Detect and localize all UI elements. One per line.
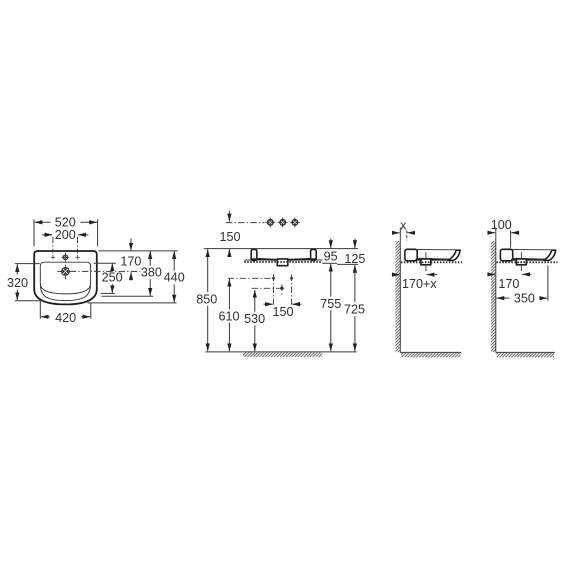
dimension 100 arrows xyxy=(488,232,496,234)
elevation fixing hole dash-dot verticals xyxy=(273,274,275,304)
dimension x arrows xyxy=(392,232,400,234)
side2 surface dotted band xyxy=(496,261,557,263)
side2 floor hatching xyxy=(497,353,555,357)
svg-text:350: 350 xyxy=(514,291,535,305)
svg-text:150: 150 xyxy=(272,305,293,319)
elevation tap holes dash-dot line xyxy=(226,222,264,224)
svg-text:x: x xyxy=(400,219,407,233)
dimension 250 xyxy=(111,263,113,270)
side2 front rim xyxy=(544,250,556,260)
svg-text:95: 95 xyxy=(324,250,338,264)
svg-text:170+x: 170+x xyxy=(402,277,437,291)
plan drain symbol xyxy=(59,265,73,279)
dimension 150 vertical bottom arrow xyxy=(228,249,230,256)
dimension 100 extension line xyxy=(510,230,512,247)
elevation surface dotted band xyxy=(244,261,322,263)
dimension 520 extension lines xyxy=(33,219,35,246)
plan centre tap hole symbol xyxy=(61,253,69,261)
plan right tap hole cross xyxy=(75,255,80,260)
side1 surface dotted band xyxy=(401,261,462,263)
elevation fixing hole right xyxy=(290,277,293,280)
dimension 95 bottom reference line xyxy=(322,262,337,264)
elevation outlet dash-dot vertical xyxy=(281,285,283,295)
side1 drain trap xyxy=(421,259,431,265)
dimension 125 bottom reference line xyxy=(337,263,358,265)
elevation right rim section xyxy=(311,249,317,260)
plan right extension line 250 top xyxy=(94,262,116,264)
plan right extension line 440 bottom xyxy=(87,302,176,304)
svg-text:150: 150 xyxy=(219,230,240,244)
dimension 350 extension line xyxy=(547,266,549,301)
elevation floor line xyxy=(205,351,356,353)
dimension 850 xyxy=(207,249,209,292)
plan right extension line 250 bottom xyxy=(101,292,115,294)
svg-text:170: 170 xyxy=(498,277,519,291)
dimension 520 xyxy=(35,221,51,223)
side1 drain dash-dot centreline xyxy=(425,252,427,272)
svg-text:170: 170 xyxy=(120,255,141,269)
dimension 200 xyxy=(42,234,52,236)
elevation left rim section xyxy=(251,249,257,260)
side2 drain dash-dot centreline xyxy=(520,252,522,272)
elevation top rim line xyxy=(204,248,358,250)
elevation floor hatching xyxy=(243,353,322,357)
plan right extension line top xyxy=(99,250,178,252)
plan left tap hole cross xyxy=(51,255,56,260)
side2 wall hatching xyxy=(491,241,496,352)
elevation fixing holes dash-dot line xyxy=(228,277,275,279)
side2 floor line xyxy=(496,351,555,353)
dimension 350 xyxy=(497,297,510,299)
dimension 420 extension lines xyxy=(39,301,41,319)
side1 floor line xyxy=(400,351,461,353)
plan outer basin outline xyxy=(34,251,97,304)
svg-text:125: 125 xyxy=(344,252,365,266)
side1 basin interior line xyxy=(417,257,449,260)
svg-text:440: 440 xyxy=(164,271,185,285)
dimension 170 bottom arrow xyxy=(130,272,132,281)
side1 basin top line xyxy=(417,249,458,251)
dimension 95 down arrow xyxy=(330,239,332,248)
side2 basin interior line xyxy=(513,257,545,260)
plan centre vertical dash-dot line xyxy=(64,253,66,280)
plan right extension line 380 bottom xyxy=(102,295,154,297)
svg-text:250: 250 xyxy=(102,270,123,284)
svg-text:725: 725 xyxy=(344,303,365,317)
side1 basin rear rim xyxy=(405,249,417,260)
side1 wall line xyxy=(399,228,401,353)
dimension 420 xyxy=(41,316,50,318)
side2 basin top line xyxy=(512,249,553,251)
plan inner bowl rim xyxy=(40,262,90,294)
elevation tap hole symbols xyxy=(265,217,275,227)
svg-text:200: 200 xyxy=(55,228,76,242)
elevation drain trap xyxy=(277,259,288,266)
dimension 200 dash-dot extension lines xyxy=(52,237,54,254)
elevation bottom edge xyxy=(251,258,277,261)
plan bowl front step arc xyxy=(40,285,90,301)
dimension 440 xyxy=(173,251,175,271)
dimension 530 xyxy=(254,290,256,312)
elevation surface line xyxy=(244,259,322,261)
svg-text:320: 320 xyxy=(7,276,28,290)
elevation bowl interior lines xyxy=(257,258,277,259)
dimension 150 horizontal xyxy=(263,303,273,305)
side2 drain trap xyxy=(516,259,526,265)
svg-text:530: 530 xyxy=(244,312,265,326)
side1 front rim xyxy=(448,250,460,260)
svg-text:610: 610 xyxy=(218,310,239,324)
side2 wall line xyxy=(495,228,497,353)
elevation fixing hole left xyxy=(272,277,275,280)
dimension x dashed extension xyxy=(406,230,408,240)
svg-text:755: 755 xyxy=(320,297,341,311)
side1 wall hatching xyxy=(395,241,400,352)
dimension 725 xyxy=(354,265,356,302)
svg-text:850: 850 xyxy=(196,293,217,307)
side2 basin bottom line xyxy=(512,259,547,261)
svg-text:420: 420 xyxy=(55,311,76,325)
side1 basin bottom line xyxy=(416,259,451,261)
dimension 170 top arrow xyxy=(130,238,132,250)
dimension 170 arrows xyxy=(487,273,495,275)
dimension 380 xyxy=(149,251,151,266)
dimension 150 vertical top arrow xyxy=(228,211,230,222)
dimension 125 down arrow xyxy=(354,239,356,248)
dimension 320 extension lines xyxy=(15,263,40,265)
dimension 170+x arrows xyxy=(392,274,400,276)
elevation outlet dash-dot line xyxy=(252,287,280,289)
svg-text:100: 100 xyxy=(491,218,512,232)
plan drain horizontal dash-dot line xyxy=(58,270,141,272)
dimension 320 xyxy=(16,264,18,274)
svg-text:380: 380 xyxy=(141,265,162,279)
elevation outlet diamond xyxy=(280,286,285,291)
dimension 755 xyxy=(330,264,332,297)
side2 basin rear rim xyxy=(500,249,512,260)
side1 floor hatching xyxy=(401,353,461,357)
dimension 610 xyxy=(228,279,230,310)
